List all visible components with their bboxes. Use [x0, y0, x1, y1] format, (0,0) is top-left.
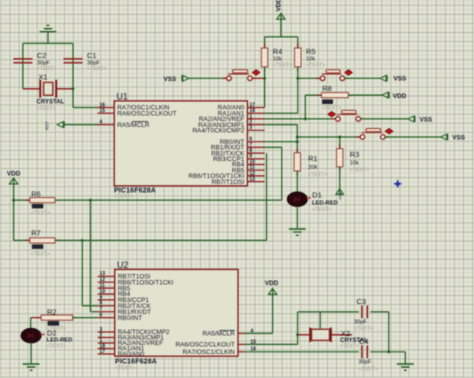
svg-text:R1: R1	[308, 154, 317, 163]
svg-text:X1: X1	[39, 73, 48, 82]
svg-text:VDD: VDD	[276, 0, 283, 12]
svg-text:U1: U1	[117, 91, 128, 101]
svg-text:D1: D1	[312, 191, 321, 200]
svg-text:10k: 10k	[350, 161, 359, 167]
svg-text:R4: R4	[273, 47, 282, 56]
svg-text:R7: R7	[31, 229, 40, 238]
svg-text:<TEXT>: <TEXT>	[350, 168, 369, 174]
svg-text:20K: 20K	[308, 165, 318, 171]
svg-text:<TEXT>: <TEXT>	[359, 367, 378, 373]
svg-text:R3: R3	[350, 150, 359, 159]
svg-text:<TEXT>: <TEXT>	[47, 344, 66, 350]
svg-text:R5: R5	[306, 47, 315, 56]
svg-text:VDD: VDD	[7, 171, 21, 178]
svg-text:<TEXT>: <TEXT>	[87, 66, 106, 72]
svg-text:<TEXT>: <TEXT>	[306, 63, 325, 69]
svg-text:X2: X2	[341, 329, 350, 338]
svg-text:<TEXT>: <TEXT>	[322, 105, 341, 111]
svg-text:VDD: VDD	[265, 280, 279, 287]
svg-text:6: 6	[100, 313, 103, 319]
svg-text:15: 15	[100, 108, 106, 114]
svg-text:RA4/T0CKI/CMP2: RA4/T0CKI/CMP2	[192, 128, 244, 135]
svg-text:LED-RED: LED-RED	[47, 337, 73, 343]
svg-text:CRYSTAL: CRYSTAL	[37, 100, 65, 106]
svg-text:RA6/OSC2/CLKOUT: RA6/OSC2/CLKOUT	[117, 110, 176, 117]
svg-text:RA0/AN0: RA0/AN0	[118, 351, 145, 358]
svg-text:RB0/INT: RB0/INT	[118, 315, 143, 322]
svg-text:<TEXT>: <TEXT>	[354, 326, 373, 332]
svg-text:<TEXT>: <TEXT>	[31, 210, 50, 216]
svg-text:<TEXT>: <TEXT>	[340, 344, 359, 350]
svg-text:R6: R6	[31, 190, 40, 199]
svg-text:VSS: VSS	[394, 76, 408, 83]
svg-text:C4: C4	[359, 337, 368, 346]
svg-text:VSS: VSS	[338, 192, 342, 200]
svg-text:<TEXT>: <TEXT>	[312, 207, 331, 213]
svg-text:RB7/T1OSI: RB7/T1OSI	[212, 179, 245, 186]
svg-text:R2: R2	[47, 308, 56, 317]
svg-text:<TEXT>: <TEXT>	[273, 63, 292, 69]
svg-text:C2: C2	[37, 51, 46, 60]
svg-text:17: 17	[100, 349, 106, 355]
svg-text:30pF: 30pF	[359, 360, 372, 366]
svg-text:VSS: VSS	[452, 135, 466, 142]
svg-text:<TEXT>: <TEXT>	[114, 194, 133, 200]
svg-text:LED-RED: LED-RED	[312, 201, 338, 207]
svg-text:D2: D2	[47, 328, 56, 337]
svg-text:RA7/OSC1/CLKIN: RA7/OSC1/CLKIN	[183, 349, 236, 356]
svg-text:4: 4	[100, 120, 103, 126]
svg-text:VDD: VDD	[393, 93, 407, 100]
svg-text:<TEXT>: <TEXT>	[37, 66, 56, 72]
svg-text:3: 3	[249, 125, 252, 131]
svg-text:RA5/MCLR: RA5/MCLR	[117, 122, 150, 129]
svg-text:VSS: VSS	[164, 76, 178, 83]
svg-text:RST: RST	[45, 121, 50, 130]
svg-text:C3: C3	[357, 297, 366, 306]
svg-text:VSS: VSS	[420, 117, 434, 124]
svg-text:30pF: 30pF	[354, 320, 367, 326]
svg-text:13: 13	[249, 177, 255, 183]
svg-text:C1: C1	[87, 51, 96, 60]
svg-text:<TEXT>: <TEXT>	[31, 251, 50, 257]
svg-text:<TEXT>: <TEXT>	[37, 106, 56, 112]
svg-text:U2: U2	[117, 260, 128, 270]
svg-text:RA6/OSC2/CLKOUT: RA6/OSC2/CLKOUT	[175, 342, 234, 349]
svg-text:<TEXT>: <TEXT>	[115, 366, 134, 372]
svg-text:<TEXT>: <TEXT>	[308, 172, 327, 178]
svg-text:RA5/MCLR: RA5/MCLR	[202, 331, 235, 338]
svg-text:R8: R8	[322, 84, 331, 93]
